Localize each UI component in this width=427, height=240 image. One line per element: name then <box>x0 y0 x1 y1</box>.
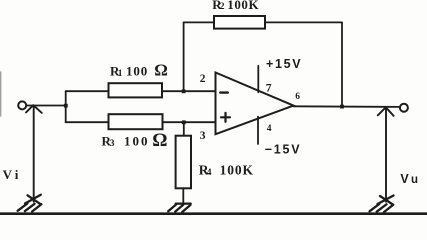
ground (below R4) <box>168 204 191 212</box>
node: branch junction <box>64 104 68 108</box>
output terminal circle (Vu) <box>400 104 408 112</box>
wire: op-amp output <box>294 105 400 108</box>
svg-text:6: 6 <box>295 92 300 102</box>
ground (Vu, bottom right) <box>370 196 394 213</box>
node: inverting input / feedback junction <box>182 89 186 93</box>
wire: R1 to op-amp inverting input <box>162 90 216 92</box>
bottom border line <box>0 212 427 215</box>
Vu voltage arrow <box>378 107 394 202</box>
svg-text:2: 2 <box>220 2 225 12</box>
ground (Vi, bottom left) <box>18 195 42 212</box>
svg-text:3: 3 <box>110 139 115 149</box>
svg-text:+15V: +15V <box>266 57 302 71</box>
svg-text:2: 2 <box>200 73 206 85</box>
svg-text:Ω: Ω <box>154 61 168 80</box>
wire: input terminal to branch junction <box>26 105 65 107</box>
svg-text:Ω: Ω <box>152 130 167 151</box>
pin 4 supply line <box>257 117 259 144</box>
wire: R4 to ground <box>182 188 184 203</box>
svg-text:4: 4 <box>207 168 212 178</box>
op-amp minus sign <box>220 91 228 93</box>
wire: R3 to op-amp non-inverting input <box>163 121 216 123</box>
label R4 100K <box>199 163 254 178</box>
label Vu <box>400 172 418 186</box>
node: output junction <box>340 105 344 109</box>
wire: feedback top left to R2 <box>184 21 214 23</box>
wire: R2 to right feedback corner <box>265 21 342 23</box>
input terminal circle (Vi) <box>18 101 26 109</box>
svg-text:100K: 100K <box>227 0 259 12</box>
svg-text:100: 100 <box>124 134 150 149</box>
resistor R3 body <box>109 114 163 129</box>
wire: lower branch to R3 <box>66 121 109 123</box>
op-amp U1 triangle <box>216 73 294 135</box>
svg-text:7: 7 <box>266 83 272 95</box>
wire: feedback left vertical <box>183 22 185 91</box>
op-amp plus sign <box>221 113 230 122</box>
svg-text:100K: 100K <box>220 163 254 178</box>
resistor R4 body <box>176 136 191 189</box>
wire: feedback right vertical <box>341 22 343 106</box>
left edge scan artifact <box>0 72 2 116</box>
svg-text:−15V: −15V <box>265 143 302 157</box>
resistor R1 body <box>109 83 163 97</box>
resistor R2 body <box>214 16 265 29</box>
svg-text:100: 100 <box>126 64 148 79</box>
pin 7 supply line <box>257 66 259 92</box>
svg-text:V: V <box>3 167 13 182</box>
label R2 100K <box>212 0 259 12</box>
svg-text:V: V <box>400 172 409 186</box>
svg-text:4: 4 <box>267 124 272 134</box>
label R1 100ohm <box>110 61 168 80</box>
label R3 100ohm <box>102 130 168 151</box>
svg-text:3: 3 <box>200 130 206 142</box>
node: non-inverting input / R4 junction <box>182 120 186 124</box>
svg-text:u: u <box>411 174 418 186</box>
wire: branch vertical <box>65 91 67 122</box>
label Vi <box>3 167 19 182</box>
svg-text:i: i <box>15 167 19 182</box>
Vi voltage arrow <box>26 105 42 202</box>
wire: upper branch to R1 <box>66 90 109 92</box>
wire: junction down to R4 <box>183 122 185 136</box>
svg-text:1: 1 <box>118 69 123 79</box>
